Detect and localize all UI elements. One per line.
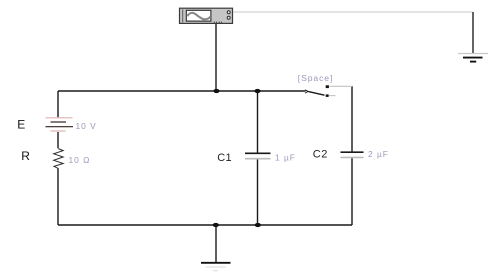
ground top-right (458, 54, 488, 62)
wire ground stem bottom (215, 225, 217, 262)
node junction ground/bottom wire (213, 223, 219, 227)
svg-text:10 Ω: 10 Ω (69, 155, 91, 165)
resistor R symbol (54, 149, 64, 169)
wire right vertical to ground (472, 12, 474, 53)
wire left branch vertical (57, 91, 59, 225)
oscilloscope XSC1 icon (180, 8, 233, 23)
node junction scope/top wire (213, 89, 219, 93)
wire C1 branch vertical (257, 91, 259, 225)
ground bottom (201, 263, 231, 271)
svg-text:2 µF: 2 µF (368, 149, 389, 159)
wire oscilloscope stem (215, 23, 217, 91)
svg-text:10 V: 10 V (76, 121, 97, 131)
svg-text:E: E (17, 118, 25, 132)
battery E symbol (46, 118, 74, 131)
capacitor C2 symbol (341, 152, 364, 157)
wire C2 branch vertical (351, 86, 353, 225)
svg-text:1 µF: 1 µF (275, 152, 296, 162)
svg-text:[Space]: [Space] (298, 73, 333, 83)
wire bottom horizontal net (58, 224, 352, 226)
node junction C1/bottom wire (255, 223, 261, 227)
wire lower throw stub (gray) (329, 95, 336, 97)
switch S1 (space key) (305, 85, 329, 97)
wire switch throw to C2 (gray) (330, 85, 353, 87)
capacitor C1 symbol (245, 153, 271, 158)
svg-text:C2: C2 (313, 148, 328, 160)
svg-text:C1: C1 (217, 152, 232, 164)
node junction C1/top wire (254, 89, 260, 93)
wire top horizontal net (58, 90, 306, 92)
wire oscilloscope to top-right ground (gray) (233, 11, 473, 13)
svg-text:R: R (21, 149, 30, 163)
